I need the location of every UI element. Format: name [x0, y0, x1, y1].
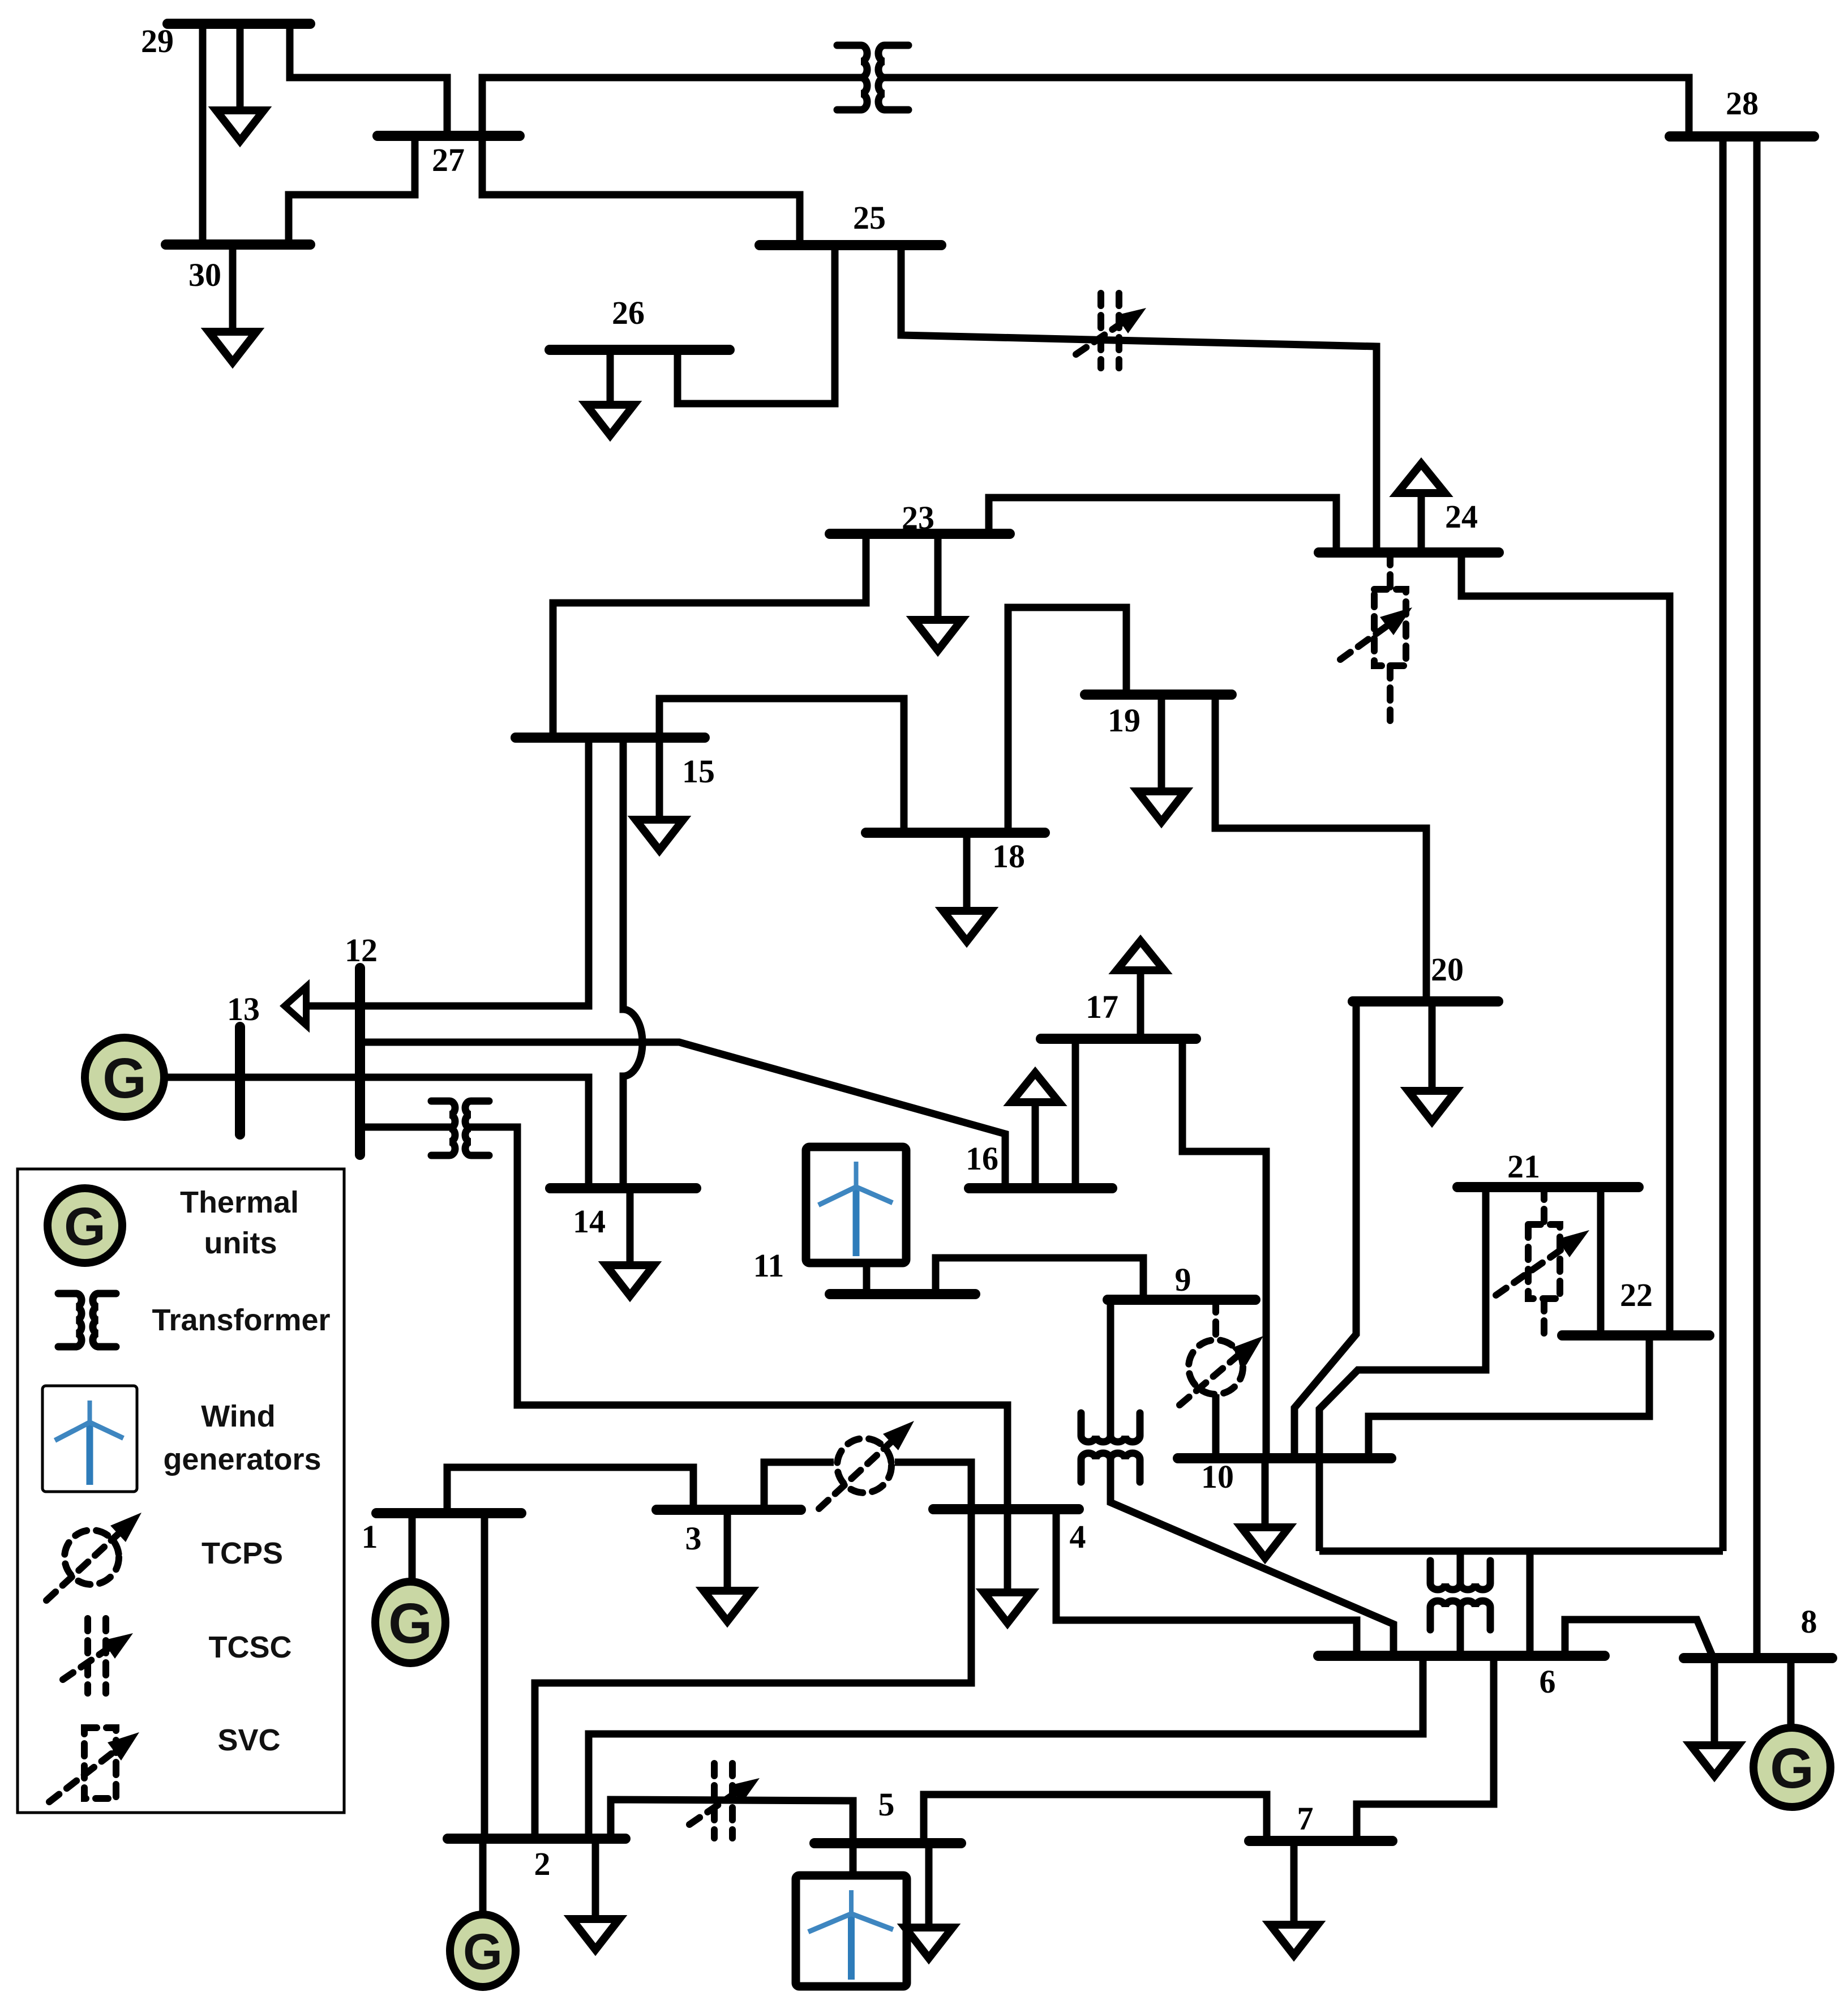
svg-text:G: G [1770, 1737, 1814, 1800]
load arrow at bus 2 [572, 1839, 619, 1950]
wire 24-22 [1461, 553, 1670, 1335]
wire 5 wind stem [850, 1843, 857, 1875]
wire 9-11 [936, 1258, 1143, 1300]
load arrow at bus 12 [285, 987, 360, 1025]
svg-text:26: 26 [612, 294, 645, 331]
legend text Wind [201, 1399, 275, 1433]
wire 27-28 right [882, 78, 1689, 136]
load arrow at bus 3 [704, 1510, 751, 1621]
svg-text:17: 17 [1086, 988, 1118, 1025]
legend text Thermal [180, 1185, 299, 1219]
wire 4-6 [1056, 1509, 1357, 1656]
load arrow at bus 10 [1241, 1458, 1289, 1558]
wire 15-18 [659, 699, 904, 833]
bus 13 [235, 1027, 245, 1134]
label 23 [902, 499, 934, 536]
bus 16 [969, 1183, 1112, 1193]
wire 25-26 [678, 245, 835, 404]
SVC between 21 and 22 [1496, 1187, 1589, 1342]
label 9 [1175, 1261, 1191, 1298]
wire 3-4 left [764, 1462, 834, 1510]
load arrow at bus 5 [905, 1843, 953, 1958]
svg-text:24: 24 [1445, 498, 1478, 535]
generator G at bus 2 [450, 1915, 516, 1987]
wire 15-12 and left load arrow [328, 738, 589, 1006]
wire 23-15 [553, 534, 866, 738]
wire 3-4 right [895, 1462, 971, 1509]
label 17 [1086, 988, 1118, 1025]
svg-text:2: 2 [534, 1845, 551, 1882]
bus 9 [1108, 1295, 1255, 1305]
label 1 [362, 1518, 378, 1555]
wind generator at bus 11 [806, 1147, 906, 1263]
svg-text:TCPS: TCPS [201, 1536, 283, 1570]
bus 27 [378, 131, 520, 141]
wire 8-28 [1753, 136, 1761, 1658]
load arrow at bus 18 [943, 833, 991, 941]
svg-text:G: G [388, 1592, 432, 1655]
label 12 [345, 932, 378, 969]
label 21 [1507, 1148, 1540, 1185]
bus 28 [1670, 131, 1814, 142]
label 27 [432, 142, 465, 178]
svg-text:6: 6 [1540, 1663, 1556, 1700]
svg-text:18: 18 [992, 838, 1025, 875]
wire 21-6 trunk [1319, 1187, 1486, 1551]
legend text TCPS [201, 1536, 283, 1570]
label 18 [992, 838, 1025, 875]
transformer T 27-28 [837, 45, 908, 110]
wire 16-17 [1072, 1039, 1079, 1188]
wire 25-24 [901, 245, 1377, 553]
wire 6-7 [1357, 1656, 1494, 1841]
wire 2-5 [611, 1800, 853, 1843]
bus 12 [355, 968, 365, 1155]
load arrow at bus 26 [586, 350, 634, 435]
label 14 [573, 1203, 606, 1240]
legend text generators [163, 1442, 321, 1476]
wire 8 G stem [1787, 1658, 1795, 1728]
TCSC on line 2-5 [689, 1763, 760, 1838]
bus 29 [168, 19, 310, 29]
load arrow at bus 19 [1138, 695, 1185, 822]
bus 25 [760, 240, 941, 250]
load arrow at bus 23 [914, 534, 962, 650]
load arrow at bus 29 [216, 24, 264, 141]
svg-text:9: 9 [1175, 1261, 1191, 1298]
label 24 [1445, 498, 1478, 535]
bus 26 [550, 345, 730, 355]
bus 1 [376, 1508, 521, 1518]
svg-text:27: 27 [432, 142, 465, 178]
legend text Transformer [152, 1303, 330, 1337]
svg-text:15: 15 [682, 753, 715, 790]
load arrow at bus 30 [209, 245, 256, 362]
TCSC on line 25-24 [1076, 293, 1146, 368]
label 19 [1108, 702, 1140, 739]
bus 7 [1249, 1836, 1392, 1846]
SVC legend [49, 1728, 139, 1802]
svg-text:10: 10 [1201, 1458, 1234, 1495]
label 20 [1431, 951, 1464, 988]
bus 14 [550, 1183, 696, 1193]
wire 13-12 and 12-14 [165, 1077, 589, 1190]
svg-text:21: 21 [1507, 1148, 1540, 1185]
wire 12-4 via transformer left [360, 1124, 452, 1131]
TCPS on line 9-10 [1180, 1300, 1263, 1458]
load arrow at bus 20 [1408, 1001, 1456, 1121]
wire 6 trunk horizontal [1319, 1548, 1723, 1555]
svg-text:8: 8 [1801, 1603, 1817, 1640]
wire 6-28 [1720, 136, 1727, 1551]
bus 21 [1457, 1182, 1639, 1192]
load arrow at bus 14 [606, 1188, 654, 1296]
wire 27-30 [289, 136, 415, 245]
bus 23 [830, 529, 1010, 539]
label 10 [1201, 1458, 1234, 1495]
wire 12-16 [360, 1042, 1005, 1188]
svg-text:4: 4 [1070, 1518, 1086, 1555]
label 4 [1070, 1518, 1086, 1555]
label 28 [1726, 85, 1759, 122]
bus 15 [516, 733, 705, 743]
svg-text:29: 29 [141, 23, 174, 59]
bus 4 [933, 1504, 1079, 1514]
wire 9-6 upper [1107, 1300, 1114, 1438]
label 5 [878, 1786, 895, 1823]
label 2 [534, 1845, 551, 1882]
svg-text:28: 28 [1726, 85, 1759, 122]
label 11 [753, 1247, 784, 1284]
wire 6-10 transformer link upper [1457, 1551, 1464, 1586]
label 15 [682, 753, 715, 790]
bus 6 [1318, 1651, 1605, 1661]
wire 27-25 [482, 136, 800, 245]
svg-text:3: 3 [685, 1520, 702, 1557]
TCPS legend [46, 1513, 142, 1600]
svg-text:Transformer: Transformer [152, 1303, 330, 1337]
wire 19-20 [1215, 695, 1426, 1001]
wire 4-2 [535, 1509, 971, 1839]
svg-text:23: 23 [902, 499, 934, 536]
generator G at bus 1 [375, 1582, 445, 1663]
svg-text:G: G [463, 1924, 503, 1980]
wire 1-3 [447, 1467, 693, 1513]
load arrow at bus 8 [1691, 1658, 1738, 1776]
svg-text:11: 11 [753, 1247, 784, 1284]
label 22 [1620, 1277, 1653, 1313]
label 25 [853, 199, 886, 236]
label 30 [188, 256, 221, 293]
bus 18 [866, 828, 1045, 838]
bus 11 [830, 1289, 975, 1299]
svg-text:generators: generators [163, 1442, 321, 1476]
injection arrow at bus 16 [1011, 1073, 1059, 1188]
wire 27-28 left [482, 78, 864, 136]
svg-text:25: 25 [853, 199, 886, 236]
wire 1 G stem [409, 1513, 416, 1582]
transformer T 12-4 [431, 1101, 489, 1155]
bus 24 [1319, 547, 1499, 558]
wire 17-10 [1182, 1039, 1266, 1458]
label 16 [966, 1140, 998, 1177]
wire 29-30 [199, 24, 207, 245]
wire 12-4 via transformer right [469, 1127, 1007, 1509]
bus 22 [1562, 1330, 1709, 1341]
transformer T 6-10 [1430, 1561, 1490, 1630]
wire 22-10 [1369, 1335, 1649, 1458]
svg-text:1: 1 [362, 1518, 378, 1555]
legend text SVC [217, 1723, 280, 1757]
bus 5 [814, 1838, 961, 1848]
load arrow at bus 4 [984, 1509, 1031, 1623]
wire 9-6 lower [1110, 1457, 1393, 1656]
label 26 [612, 294, 645, 331]
svg-text:14: 14 [573, 1203, 606, 1240]
generator G at bus 13 [85, 1038, 164, 1117]
wire 6-10 transformer link lower [1457, 1604, 1464, 1656]
svg-text:units: units [204, 1226, 277, 1260]
TCPS on line 3-4 [819, 1421, 914, 1509]
svg-text:SVC: SVC [217, 1723, 280, 1757]
generator G at bus legend thermal units [48, 1188, 122, 1263]
wire 1-2 [481, 1513, 488, 1839]
wire 29-27 [290, 24, 447, 136]
svg-text:13: 13 [227, 991, 260, 1027]
label 6 [1540, 1663, 1556, 1700]
load arrow at bus 15 [636, 738, 683, 850]
wire 11 stem [863, 1263, 871, 1294]
bus 3 [657, 1505, 801, 1515]
svg-text:16: 16 [966, 1140, 998, 1177]
svg-text:G: G [102, 1047, 147, 1110]
svg-text:12: 12 [345, 932, 378, 969]
wire 18-19 [1008, 607, 1126, 833]
wire 6-8 [1565, 1620, 1713, 1658]
bus 19 [1085, 689, 1232, 700]
SVC at bus 24 [1340, 553, 1412, 721]
svg-text:G: G [64, 1197, 106, 1257]
wire 2 G stem [479, 1839, 487, 1915]
svg-text:20: 20 [1431, 951, 1464, 988]
svg-text:Wind: Wind [201, 1399, 275, 1433]
label 8 [1801, 1603, 1817, 1640]
legend text units [204, 1226, 277, 1260]
svg-text:Thermal: Thermal [180, 1185, 299, 1219]
wire 5-7 [924, 1795, 1267, 1843]
injection arrow at bus 17 [1117, 941, 1164, 1039]
wire 20-10 [1294, 1001, 1356, 1458]
bus 10 [1178, 1453, 1391, 1463]
label 13 [227, 991, 260, 1027]
bus 2 [448, 1834, 625, 1844]
wire 21-22 [1597, 1187, 1605, 1335]
legend text TCSC [209, 1630, 292, 1664]
svg-text:TCSC: TCSC [209, 1630, 292, 1664]
label 7 [1297, 1800, 1314, 1837]
wire 23-24 [989, 498, 1336, 553]
wire 6-2 [589, 1656, 1423, 1839]
svg-text:30: 30 [188, 256, 221, 293]
TCSC legend [63, 1618, 133, 1693]
load arrow at bus 7 [1270, 1841, 1318, 1955]
bus 30 [166, 239, 310, 250]
svg-text:7: 7 [1297, 1800, 1314, 1837]
wire 15-14 with hop over 12-16 [623, 738, 642, 1190]
bus 20 [1353, 996, 1498, 1007]
generator G at bus 8 [1753, 1728, 1830, 1807]
label 3 [685, 1520, 702, 1557]
bus 8 [1684, 1653, 1832, 1663]
svg-text:19: 19 [1108, 702, 1140, 739]
wire 6 stub [1527, 1551, 1534, 1656]
svg-text:5: 5 [878, 1786, 895, 1823]
legend box [18, 1169, 344, 1813]
svg-text:22: 22 [1620, 1277, 1653, 1313]
transformer legend [58, 1294, 116, 1347]
label 29 [141, 23, 174, 59]
wind generator at bus 5 [796, 1875, 907, 1986]
transformer T 6-9 [1081, 1413, 1140, 1482]
wind generator legend [42, 1386, 137, 1492]
bus 17 [1041, 1034, 1196, 1044]
injection arrow at bus 24 [1397, 464, 1445, 553]
